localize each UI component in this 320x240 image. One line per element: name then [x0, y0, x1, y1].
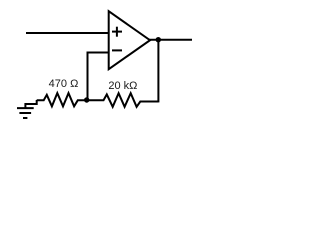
resistor R1 470 Ohm — [37, 93, 87, 106]
wire: jogged lead from ground to R1 — [25, 100, 36, 104]
svg-text:470 Ω: 470 Ω — [49, 78, 79, 90]
op-amp U1 — [109, 11, 150, 69]
ground — [17, 103, 34, 118]
node A junction dot (R1/R2/inverting input) — [84, 97, 89, 102]
op-amp - input marking — [112, 49, 122, 51]
wire: output from op-amp — [149, 39, 192, 41]
svg-text:20 kΩ: 20 kΩ — [108, 80, 137, 92]
output node junction dot — [156, 37, 161, 42]
wire: feedback from output node down right side — [157, 40, 159, 103]
wire: inverting input — [88, 52, 110, 54]
wire: feedback drop from inverting input to node A — [87, 52, 89, 101]
op-amp + input marking — [112, 27, 122, 37]
resistor R2 20 kOhm — [87, 93, 159, 107]
wire: non-inverting input from left — [26, 32, 109, 34]
